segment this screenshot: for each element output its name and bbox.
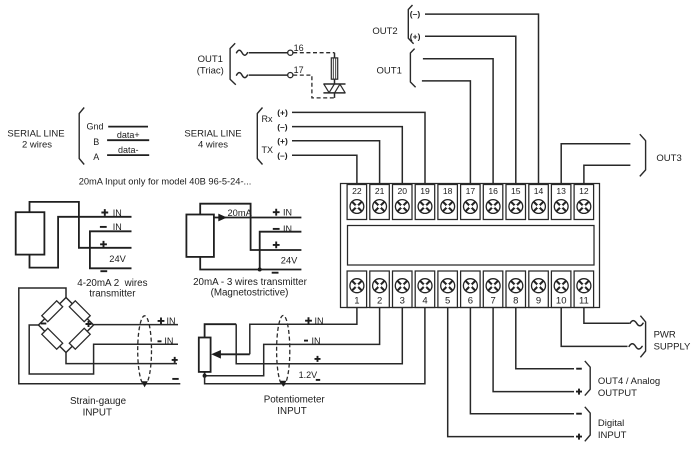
OUT1 triac contact symbol upper bbox=[237, 50, 248, 55]
terminal 4 bbox=[415, 271, 435, 308]
svg-text:IN: IN bbox=[315, 316, 324, 326]
svg-text:(+): (+) bbox=[410, 31, 421, 41]
triac bbox=[323, 84, 345, 98]
wire OUT1a to terminal 16 bbox=[423, 59, 493, 184]
Digital INPUT label bbox=[598, 418, 627, 441]
label strain excitation plus bbox=[172, 357, 178, 363]
terminal 17 bbox=[461, 185, 481, 220]
svg-text:SERIAL LINE: SERIAL LINE bbox=[7, 129, 64, 140]
arrow 20mA direction bbox=[218, 214, 227, 222]
label strain +IN bbox=[158, 316, 176, 326]
label OUT2 (+) bbox=[410, 31, 421, 41]
svg-text:IN: IN bbox=[312, 336, 321, 346]
svg-text:(+): (+) bbox=[277, 108, 288, 118]
label 2w 24V bbox=[109, 254, 126, 264]
terminal block outer body bbox=[341, 184, 600, 308]
terminal 8 bbox=[506, 271, 526, 308]
wire Rx- to terminal 20 bbox=[292, 127, 402, 184]
junction dot 3w bbox=[258, 268, 262, 272]
OUT1 triac bracket bbox=[230, 43, 236, 84]
wire data+ bbox=[107, 139, 149, 141]
transmitter 2-wire box bbox=[16, 212, 45, 254]
strain resistor bottom-right bbox=[69, 328, 90, 349]
svg-text:(–): (–) bbox=[410, 9, 421, 19]
wire strain left corner to -IN bbox=[29, 325, 178, 374]
svg-text:8: 8 bbox=[513, 296, 518, 307]
svg-text:6: 6 bbox=[468, 296, 473, 307]
wire terminal 12 to OUT3 bbox=[584, 165, 631, 183]
terminal 13 bbox=[551, 185, 571, 220]
OUT1 right bracket bbox=[410, 49, 415, 88]
svg-text:A: A bbox=[93, 152, 99, 162]
wire OUT1b to terminal 17 bbox=[422, 81, 471, 184]
label data- bbox=[118, 145, 139, 155]
svg-text:16: 16 bbox=[488, 186, 498, 196]
wire pot bottom to terminal 4 (1.2V-) bbox=[205, 308, 425, 384]
svg-text:INPUT: INPUT bbox=[83, 408, 112, 419]
label pot excitation plus bbox=[315, 356, 321, 362]
svg-text:17: 17 bbox=[294, 65, 304, 75]
svg-text:OUT2: OUT2 bbox=[372, 26, 397, 37]
strain resistor top-right bbox=[69, 301, 90, 322]
label 3w 24V bbox=[281, 255, 298, 265]
serial line 4 wires label bbox=[184, 129, 241, 151]
svg-text:2 wires: 2 wires bbox=[22, 140, 52, 151]
wire terminal 6 to Digital- bbox=[470, 308, 574, 414]
wire 3w box top to 24V+ bbox=[200, 204, 301, 250]
label Gnd bbox=[87, 122, 104, 132]
terminal 7 bbox=[483, 271, 503, 308]
svg-text:OUTPUT: OUTPUT bbox=[598, 388, 637, 399]
svg-text:transmitter: transmitter bbox=[89, 289, 136, 300]
svg-text:20mA: 20mA bbox=[228, 208, 253, 218]
wire data- bbox=[107, 154, 149, 156]
label Rx bbox=[262, 114, 273, 124]
OUT2 bracket bbox=[408, 5, 413, 44]
svg-text:IN: IN bbox=[113, 222, 122, 232]
transmitter 3-wire box bbox=[186, 215, 214, 257]
svg-text:(–): (–) bbox=[277, 122, 288, 132]
svg-text:(–): (–) bbox=[277, 151, 288, 161]
svg-text:11: 11 bbox=[579, 296, 589, 307]
terminal circle 16 bbox=[288, 50, 293, 55]
terminal 12 bbox=[574, 185, 594, 220]
svg-text:(+): (+) bbox=[277, 136, 288, 146]
potentiometer body bbox=[199, 338, 211, 372]
terminal 6 bbox=[461, 271, 481, 308]
OUT4 bracket bbox=[585, 361, 590, 396]
caption 4-20mA 2 wires transmitter bbox=[77, 278, 147, 300]
svg-text:PWR: PWR bbox=[654, 329, 676, 340]
label TX bbox=[262, 145, 274, 155]
svg-text:10: 10 bbox=[556, 296, 567, 307]
svg-text:SERIAL LINE: SERIAL LINE bbox=[184, 129, 241, 140]
svg-text:20mA - 3 wires transmitter: 20mA - 3 wires transmitter bbox=[193, 277, 308, 288]
label Rx (-) bbox=[277, 122, 288, 132]
terminal 1 bbox=[347, 271, 367, 308]
OUT1 label right bbox=[377, 65, 402, 76]
label strain -IN bbox=[158, 336, 174, 346]
OUT4 minus sign bbox=[576, 368, 582, 370]
svg-text:IN: IN bbox=[167, 316, 176, 326]
svg-text:1: 1 bbox=[354, 296, 359, 307]
wire 3w box bottom to 24V- bbox=[200, 257, 301, 270]
label strain minus bbox=[172, 378, 178, 380]
svg-text:13: 13 bbox=[556, 186, 566, 196]
wire pot top to terminal 3 (excitation +) bbox=[205, 308, 403, 364]
OUT4 plus sign bbox=[576, 389, 582, 395]
svg-text:TX: TX bbox=[262, 145, 274, 155]
junction dot pot bbox=[203, 374, 207, 378]
svg-text:17: 17 bbox=[466, 186, 476, 196]
wire OUT2- to terminal 14 bbox=[425, 14, 539, 183]
dashed wire circle17 to triac bottom bbox=[293, 75, 334, 98]
OUT3 bracket bbox=[640, 134, 646, 176]
PWR contact symbol upper bbox=[630, 321, 643, 326]
terminal 9 bbox=[529, 271, 549, 308]
svg-text:(Magnetostrictive): (Magnetostrictive) bbox=[211, 287, 289, 298]
PWR SUPPLY label bbox=[654, 329, 691, 352]
terminal 19 bbox=[415, 185, 435, 220]
svg-text:4 wires: 4 wires bbox=[198, 140, 228, 151]
serial line 2 wires bracket bbox=[79, 108, 84, 165]
caption strain gauge bbox=[70, 396, 127, 419]
wire 2w box bottom to +IN bbox=[30, 217, 132, 268]
svg-text:IN: IN bbox=[164, 336, 173, 346]
label B bbox=[93, 137, 99, 147]
wire OUT1 upper to terminal circle 16 bbox=[249, 52, 288, 54]
strain bridge minus sign bbox=[41, 323, 47, 325]
label A bbox=[93, 152, 99, 162]
strain bridge plus sign bbox=[86, 321, 92, 327]
label 2w +IN bbox=[101, 208, 121, 218]
svg-text:Potentiometer: Potentiometer bbox=[264, 395, 326, 406]
svg-text:(Triac): (Triac) bbox=[197, 66, 224, 77]
terminal circle 17 bbox=[288, 73, 293, 78]
label 17 bbox=[294, 65, 304, 75]
terminal 21 bbox=[370, 185, 390, 220]
terminal 5 bbox=[438, 271, 458, 308]
caption 20mA 3 wires transmitter bbox=[193, 277, 308, 299]
wire terminal 10 to PWR bbox=[561, 308, 627, 347]
OUT4 / Analog OUTPUT label bbox=[598, 376, 660, 399]
strain resistor bottom-left bbox=[42, 328, 63, 349]
fuse F1 bbox=[331, 53, 337, 84]
OUT3 label bbox=[656, 153, 681, 164]
wire pot bottom to terminal 2 (-IN) bbox=[205, 308, 380, 376]
terminal 3 bbox=[393, 271, 413, 308]
wire OUT1 lower to terminal circle 17 bbox=[249, 74, 288, 76]
wire strain bottom corner to excitation + bbox=[66, 353, 177, 364]
label 3w -IN bbox=[273, 224, 292, 234]
PWR contact symbol lower bbox=[629, 344, 642, 349]
wire strain top corner to minus line bbox=[19, 288, 181, 384]
wire 2w box top to 24V+ bbox=[30, 202, 132, 248]
svg-text:IN: IN bbox=[283, 224, 292, 234]
strain gauge bridge arms bbox=[39, 298, 94, 353]
OUT2 label bbox=[372, 26, 397, 37]
svg-text:16: 16 bbox=[294, 43, 304, 53]
wire terminal 13 to OUT3 bbox=[561, 144, 630, 184]
svg-text:OUT3: OUT3 bbox=[656, 153, 681, 164]
svg-text:24V: 24V bbox=[109, 254, 126, 264]
terminal 18 bbox=[438, 185, 458, 220]
svg-text:22: 22 bbox=[352, 186, 362, 196]
label Rx (+) bbox=[277, 108, 288, 118]
svg-text:INPUT: INPUT bbox=[277, 406, 306, 417]
svg-text:data+: data+ bbox=[117, 130, 140, 140]
svg-text:OUT4 / Analog: OUT4 / Analog bbox=[598, 376, 660, 387]
svg-text:15: 15 bbox=[511, 186, 521, 196]
svg-text:24V: 24V bbox=[281, 255, 298, 265]
label data+ bbox=[117, 130, 140, 140]
label TX (+) bbox=[277, 136, 288, 146]
label OUT2 (-) bbox=[410, 9, 421, 19]
svg-text:OUT1: OUT1 bbox=[198, 54, 223, 65]
dashed wire circle16 to fuse bbox=[293, 52, 334, 54]
label 2w 24V+ bbox=[100, 241, 107, 248]
potentiometer wiper arrow bbox=[211, 350, 250, 359]
wire terminal 8 to OUT4- bbox=[516, 308, 574, 369]
terminal 11 bbox=[574, 271, 594, 308]
wire strain right corner to +IN bbox=[94, 324, 179, 326]
PWR bracket bbox=[640, 316, 645, 358]
label pot -IN bbox=[304, 336, 321, 346]
svg-text:1.2V: 1.2V bbox=[299, 370, 318, 380]
terminal block middle panel bbox=[348, 226, 595, 266]
serial line 2 wires label bbox=[7, 129, 64, 151]
strain cable shield ellipse bbox=[138, 316, 152, 388]
wire 2w -IN jumper to 24V- bbox=[90, 231, 132, 268]
svg-text:IN: IN bbox=[113, 208, 122, 218]
svg-text:12: 12 bbox=[579, 186, 589, 196]
wire TX- to terminal 22 bbox=[292, 155, 357, 183]
svg-text:Strain-gauge: Strain-gauge bbox=[70, 396, 127, 407]
svg-text:4: 4 bbox=[422, 296, 427, 307]
label 1.2V bbox=[299, 370, 321, 380]
label 3w 24V+ bbox=[273, 242, 280, 249]
svg-text:OUT1: OUT1 bbox=[377, 65, 402, 76]
terminal 16 bbox=[483, 185, 503, 220]
Digital bracket bbox=[585, 407, 590, 442]
wire 3w 20mA out to +IN bbox=[214, 217, 302, 219]
OUT1 triac contact symbol lower bbox=[237, 73, 248, 78]
svg-text:5: 5 bbox=[445, 296, 450, 307]
label 3w 24V- bbox=[272, 272, 279, 274]
label 20mA bbox=[228, 208, 253, 218]
caption potentiometer bbox=[264, 395, 326, 418]
label 3w +IN bbox=[273, 208, 292, 218]
wire pot wiper to terminal 1 (+IN) bbox=[250, 308, 357, 355]
svg-text:2: 2 bbox=[377, 296, 382, 307]
wire Rx+ to terminal 19 bbox=[292, 112, 425, 183]
svg-text:9: 9 bbox=[536, 296, 541, 307]
svg-text:7: 7 bbox=[490, 296, 495, 307]
label 2w -IN bbox=[100, 222, 122, 232]
svg-text:SUPPLY: SUPPLY bbox=[654, 341, 691, 352]
terminal 2 bbox=[370, 271, 390, 308]
svg-text:data-: data- bbox=[118, 145, 139, 155]
label 16 bbox=[294, 43, 304, 53]
svg-text:14: 14 bbox=[534, 186, 544, 196]
svg-text:IN: IN bbox=[283, 208, 292, 218]
terminal 10 bbox=[551, 271, 571, 308]
label TX (-) bbox=[277, 151, 288, 161]
pot cable shield ellipse bbox=[277, 316, 290, 387]
svg-text:INPUT: INPUT bbox=[598, 430, 627, 441]
terminal 14 bbox=[529, 185, 549, 220]
OUT1 (Triac) label bbox=[197, 54, 224, 77]
wire OUT2+ to terminal 15 bbox=[425, 36, 516, 183]
wire 3w -IN to 24V- bbox=[260, 232, 302, 270]
svg-text:4-20mA 2 wires: 4-20mA 2 wires bbox=[77, 278, 147, 289]
label 2w 24V- bbox=[100, 270, 107, 272]
svg-text:20mA Input only for model 40B: 20mA Input only for model 40B 96-5-24-..… bbox=[79, 176, 252, 186]
svg-text:B: B bbox=[93, 137, 99, 147]
Digital minus sign bbox=[576, 413, 582, 415]
svg-text:20: 20 bbox=[398, 186, 408, 196]
serial line 4 wires bracket bbox=[257, 108, 262, 165]
strain resistor top-left bbox=[42, 301, 63, 322]
svg-text:Rx: Rx bbox=[262, 114, 273, 124]
wire terminal 5 to Digital+ bbox=[448, 308, 574, 437]
svg-text:Gnd: Gnd bbox=[87, 122, 104, 132]
terminal 22 bbox=[347, 185, 367, 220]
terminal 20 bbox=[393, 185, 413, 220]
note text 20mA input only bbox=[79, 176, 252, 186]
wire Gnd bbox=[108, 126, 148, 128]
wire terminal 11 to PWR bbox=[584, 308, 630, 324]
wire terminal 7 to OUT4+ bbox=[493, 308, 574, 392]
terminal 15 bbox=[506, 185, 526, 220]
Digital plus sign bbox=[576, 434, 582, 440]
svg-text:3: 3 bbox=[400, 296, 405, 307]
svg-text:18: 18 bbox=[443, 186, 453, 196]
svg-text:21: 21 bbox=[375, 186, 385, 196]
svg-text:Digital: Digital bbox=[598, 418, 624, 429]
wire TX+ to terminal 21 bbox=[292, 141, 380, 184]
label pot +IN bbox=[305, 316, 323, 326]
svg-text:19: 19 bbox=[420, 186, 430, 196]
